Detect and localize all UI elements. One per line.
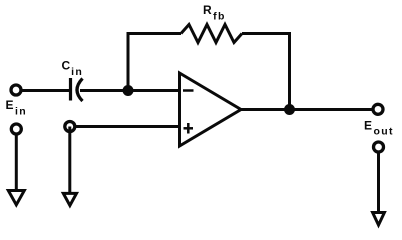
wire: R_fb right segment and down to node B: [242, 34, 290, 110]
svg-text:Cin: Cin: [62, 59, 84, 79]
wire: C_in to node A: [80, 89, 134, 92]
wire: non-inverting terminal down to ground: [68, 127, 71, 195]
node B junction dot: [284, 104, 295, 115]
wire: input return terminal down: [15, 129, 18, 192]
node A junction dot: [123, 85, 134, 96]
wire: feedback up from node A and left segment to R_fb: [128, 34, 181, 91]
terminal non-inverting input return: [65, 122, 75, 132]
wire: node A to op-amp inverting input: [128, 89, 180, 92]
op-amp inverting input minus sign: [183, 89, 194, 92]
wire: op-amp output to E_out terminal: [241, 108, 378, 111]
wire: non-inverting input from ground terminal to op-amp: [70, 125, 180, 128]
op-amp non-inverting input plus sign: [184, 123, 194, 134]
capacitor C_in: [71, 78, 83, 101]
svg-text:Eout: Eout: [364, 119, 394, 138]
wire: E_in terminal to C_in left plate: [16, 89, 71, 92]
resistor R_fb: [181, 25, 242, 43]
terminal E_out: [373, 104, 383, 114]
ground (input return): [8, 191, 24, 205]
ground (non-inverting input): [63, 193, 76, 205]
terminal E_in: [11, 85, 21, 95]
terminal input return: [11, 124, 21, 134]
terminal output return: [374, 142, 384, 152]
wire: output return terminal down to ground: [377, 147, 380, 214]
op-amp U1: [180, 73, 242, 146]
svg-text:Rfb: Rfb: [203, 3, 226, 23]
ground (output return): [373, 213, 385, 226]
svg-text:Ein: Ein: [6, 98, 27, 118]
